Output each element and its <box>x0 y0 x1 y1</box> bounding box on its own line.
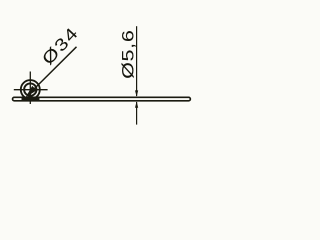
wire vertical dimension line lower segment <box>136 102 138 125</box>
node arrowhead of leader <box>26 86 37 98</box>
node eye ring inner circle <box>24 83 36 95</box>
node eye ring outer circle <box>21 80 40 99</box>
paper background <box>0 0 214 160</box>
wire leader line for diameter 34 <box>30 47 77 93</box>
wire horizontal centerline <box>14 89 48 91</box>
shank of pin (rounded bar outline) <box>13 97 191 101</box>
node arrowhead up <box>135 101 138 107</box>
node arrowhead down <box>135 90 138 96</box>
wire vertical centerline <box>29 72 31 105</box>
wire vertical dimension line upper segment <box>136 26 138 96</box>
svg-text:Ø5,6: Ø5,6 <box>119 30 138 79</box>
wire merge of eye bottom with shank <box>22 98 40 100</box>
